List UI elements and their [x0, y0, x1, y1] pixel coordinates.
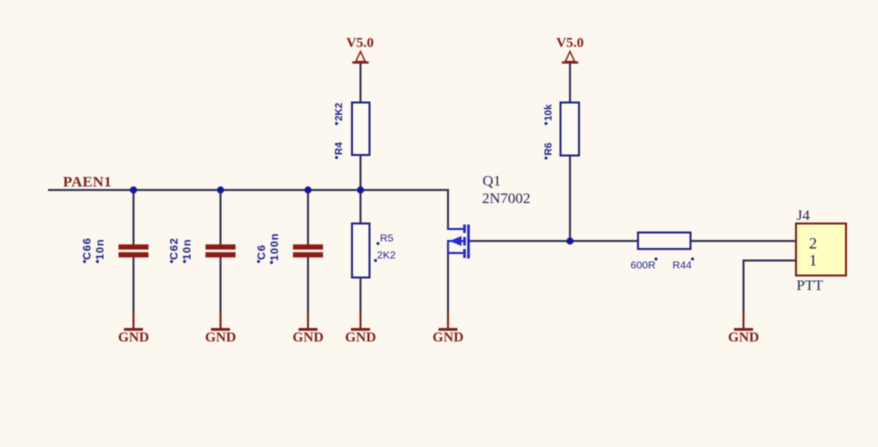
svg-text:R5: R5 — [380, 233, 394, 245]
svg-text:R6: R6 — [544, 142, 555, 155]
svg-text:GND: GND — [118, 331, 149, 346]
svg-text:PTT: PTT — [797, 278, 824, 294]
svg-text:10n: 10n — [95, 239, 107, 260]
svg-text:GND: GND — [728, 331, 759, 346]
svg-text:Q1: Q1 — [483, 174, 501, 190]
svg-text:2N7002: 2N7002 — [482, 191, 530, 207]
svg-text:C66: C66 — [82, 237, 94, 260]
svg-text:100n: 100n — [269, 233, 281, 261]
svg-text:R44: R44 — [673, 260, 692, 272]
svg-text:GND: GND — [292, 331, 323, 346]
svg-text:V5.0: V5.0 — [556, 36, 584, 51]
svg-text:V5.0: V5.0 — [346, 36, 374, 51]
svg-text:C6: C6 — [256, 244, 268, 260]
svg-text:1: 1 — [809, 253, 817, 270]
svg-text:10n: 10n — [182, 239, 194, 260]
svg-text:2: 2 — [809, 236, 817, 253]
svg-text:J4: J4 — [797, 208, 811, 224]
svg-text:2K2: 2K2 — [377, 250, 396, 262]
svg-text:600R: 600R — [631, 260, 657, 272]
svg-text:GND: GND — [432, 331, 463, 346]
svg-text:R4: R4 — [334, 142, 345, 155]
svg-text:C62: C62 — [169, 237, 181, 260]
svg-text:PAEN1: PAEN1 — [63, 175, 112, 191]
svg-text:2K2: 2K2 — [334, 102, 345, 121]
svg-text:10k: 10k — [544, 104, 555, 121]
svg-text:GND: GND — [345, 331, 376, 346]
svg-text:GND: GND — [205, 331, 236, 346]
